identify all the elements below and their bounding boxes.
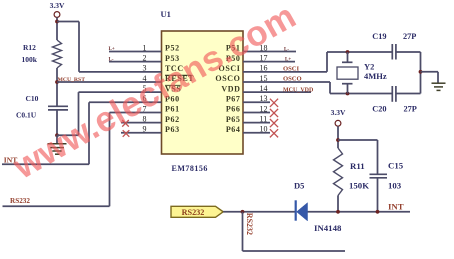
- svg-text:L-: L-: [109, 57, 114, 62]
- svg-text:C15: C15: [388, 161, 404, 171]
- svg-text:100k: 100k: [22, 55, 38, 64]
- svg-text:150K: 150K: [349, 181, 369, 191]
- svg-text:3.3V: 3.3V: [50, 1, 65, 10]
- svg-text:P64: P64: [226, 125, 241, 134]
- svg-text:27P: 27P: [404, 105, 417, 114]
- svg-text:P65: P65: [226, 115, 241, 124]
- svg-text:RS232: RS232: [182, 208, 205, 217]
- svg-text:OSCI: OSCI: [283, 65, 300, 72]
- svg-text:U1: U1: [161, 9, 171, 19]
- svg-text:103: 103: [388, 181, 402, 191]
- svg-text:C19: C19: [372, 32, 386, 41]
- svg-text:L+: L+: [109, 47, 115, 52]
- svg-text:4MHz: 4MHz: [364, 71, 387, 81]
- svg-text:RS232: RS232: [245, 213, 254, 235]
- svg-text:MCU_VDD: MCU_VDD: [283, 87, 314, 93]
- svg-text:P62: P62: [165, 115, 180, 124]
- svg-text:IN4148: IN4148: [314, 223, 342, 233]
- svg-text:3.3V: 3.3V: [331, 108, 346, 117]
- svg-text:L-: L-: [284, 47, 289, 52]
- svg-text:VDD: VDD: [221, 84, 240, 93]
- svg-text:L+: L+: [285, 57, 291, 62]
- svg-text:C0.1U: C0.1U: [16, 111, 37, 120]
- svg-text:P66: P66: [226, 105, 241, 114]
- svg-text:C20: C20: [372, 105, 386, 114]
- svg-text:C10: C10: [26, 94, 39, 103]
- svg-text:R11: R11: [350, 161, 365, 171]
- svg-text:P52: P52: [165, 44, 180, 53]
- svg-text:EM78156: EM78156: [172, 164, 208, 173]
- svg-text:R12: R12: [23, 43, 36, 52]
- svg-text:27P: 27P: [403, 32, 416, 41]
- svg-text:OSCO: OSCO: [283, 76, 302, 83]
- svg-text:D5: D5: [294, 181, 304, 191]
- svg-text:INT: INT: [388, 201, 404, 211]
- svg-text:P63: P63: [165, 125, 180, 134]
- svg-text:www.elecfans.com: www.elecfans.com: [6, 0, 302, 187]
- svg-text:RS232: RS232: [10, 197, 30, 205]
- svg-text:MCU_RST: MCU_RST: [58, 77, 86, 83]
- svg-text:P67: P67: [226, 95, 241, 104]
